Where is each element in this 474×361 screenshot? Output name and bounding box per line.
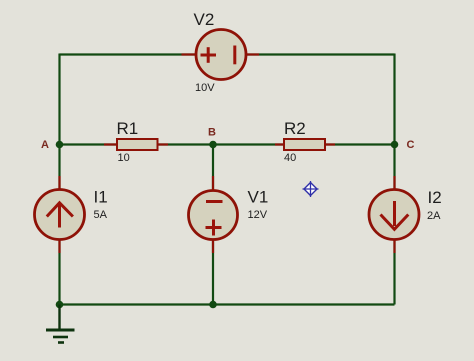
svg-text:V1: V1 [248, 188, 269, 207]
svg-text:A: A [41, 139, 49, 151]
svg-text:C: C [407, 139, 415, 151]
svg-text:40: 40 [284, 152, 296, 164]
svg-text:2A: 2A [427, 210, 441, 222]
svg-text:10: 10 [118, 152, 130, 164]
svg-text:I2: I2 [428, 188, 442, 207]
svg-text:10V: 10V [195, 82, 215, 94]
svg-text:5A: 5A [94, 209, 108, 221]
svg-text:B: B [208, 127, 216, 139]
svg-text:R1: R1 [117, 119, 139, 138]
svg-text:12V: 12V [248, 209, 268, 221]
svg-text:R2: R2 [284, 119, 306, 138]
svg-text:V2: V2 [194, 10, 215, 29]
svg-text:I1: I1 [94, 188, 108, 207]
